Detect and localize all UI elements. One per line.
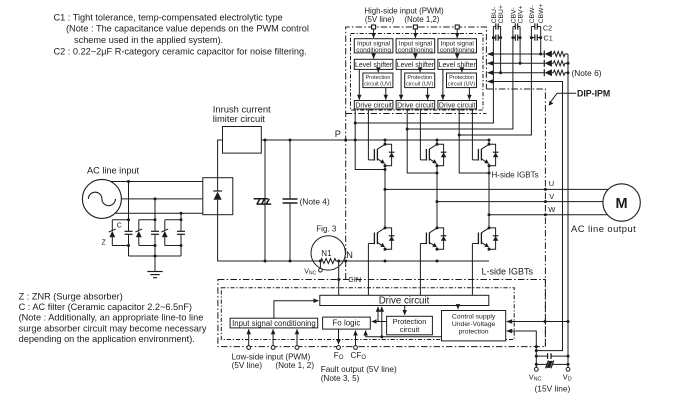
svg-text:DIP-IPM: DIP-IPM	[577, 89, 610, 99]
DIP-IPM boundary (dash-dot)	[346, 27, 546, 347]
wire low gate feed U	[367, 244, 369, 296]
svg-text:N1: N1	[321, 249, 332, 258]
svg-text:CBV+: CBV+	[518, 5, 525, 23]
wire level shifter to protection U	[377, 69, 379, 72]
wire AC line 1	[111, 181, 203, 183]
wire low-side input 3	[296, 329, 298, 345]
svg-text:U: U	[549, 179, 554, 188]
IGBT Q1 (high-side U)	[368, 140, 385, 166]
low-side inner dashed box	[221, 288, 514, 340]
motor M	[603, 184, 640, 221]
note text C1/C2	[54, 12, 309, 56]
wire drive to UV protection	[457, 306, 459, 310]
IGBT Q5 (low-side V)	[420, 223, 437, 249]
wire phase U	[384, 188, 609, 191]
label Inrush current limiter circuit	[213, 104, 271, 125]
svg-text:(Note 1, 2): (Note 1, 2)	[275, 361, 314, 370]
freewheel diode Q4 (low-side U)	[385, 228, 394, 249]
level shifter box U	[354, 59, 393, 69]
svg-text:P: P	[335, 129, 341, 139]
svg-text:Level shifter: Level shifter	[397, 62, 435, 69]
wire low gate feed W	[471, 244, 473, 296]
svg-text:circuit (UV): circuit (UV)	[448, 81, 475, 87]
svg-text:Level shifter: Level shifter	[355, 62, 393, 69]
AC source V1	[82, 179, 121, 218]
inrush current limiter box	[223, 127, 262, 154]
svg-text:C2: C2	[543, 24, 552, 33]
wire bootstrap minus link U	[355, 122, 493, 125]
svg-text:circuit: circuit	[400, 325, 421, 334]
wire drive to Fo-logic/protection link	[378, 307, 383, 339]
ground	[147, 256, 162, 278]
node N1 left	[319, 260, 322, 263]
node N pin on boundary	[344, 260, 347, 263]
capacitor C1 (CBW)	[530, 35, 542, 41]
wire drive to protection	[404, 306, 406, 315]
wire high drive V VS feed	[407, 109, 437, 173]
svg-text:(Note 4): (Note 4)	[300, 196, 330, 206]
protection circuit box (low-side)	[387, 316, 433, 335]
capacitor C1 (CBV)	[511, 35, 521, 41]
svg-text:conditioning: conditioning	[398, 47, 433, 54]
wire AC line 2	[121, 198, 202, 200]
terminal VNC (near N1)	[319, 261, 323, 272]
terminal low-side input 1	[247, 346, 251, 350]
label Low-side input (PWM)	[232, 352, 315, 370]
freewheel diode Q5 (low-side V)	[437, 228, 446, 249]
wire high gate feed U	[367, 109, 369, 160]
wire ISC-low to drive circuit	[274, 301, 319, 319]
capacitor C2 (CBV)	[513, 23, 520, 29]
svg-text:CBW+: CBW+	[538, 4, 545, 24]
surge absorber unit 1 (Z varistor + C cap)	[109, 218, 133, 256]
svg-text:Protection: Protection	[366, 75, 391, 81]
wire input arrow U	[373, 29, 375, 38]
svg-text:Fo logic: Fo logic	[332, 318, 360, 327]
svg-text:(Note : Additionally, an appro: (Note : Additionally, an appropriate lin…	[19, 313, 204, 323]
freewheel diode Q2 (high-side V)	[437, 144, 446, 165]
label Fault output	[321, 365, 397, 383]
svg-text:(5V line): (5V line)	[365, 15, 395, 24]
node line2-filter tap	[154, 197, 157, 200]
wire protection to drive W	[468, 88, 470, 100]
freewheel diode Q1 (high-side U)	[385, 144, 394, 165]
wire high drive U VS feed	[355, 109, 385, 170]
wire VNC to UV protection	[506, 329, 536, 368]
bootstrap capacitor pair 2 wires	[513, 27, 520, 130]
svg-text:C1: C1	[544, 34, 553, 43]
node V leg emitter	[436, 260, 439, 263]
level shifter box W	[438, 59, 477, 69]
svg-text:M: M	[616, 196, 628, 212]
wire VNC supply row 4	[487, 79, 563, 350]
svg-text:limiter circuit: limiter circuit	[213, 113, 265, 124]
svg-text:conditioning: conditioning	[440, 47, 475, 54]
label High-side input (PWM)	[364, 6, 444, 24]
capacitor smoothing (Note 4)	[283, 140, 298, 261]
IGBT Q3 (high-side W)	[472, 140, 489, 166]
node VS junction W	[458, 134, 461, 137]
svg-text:(Note : The capacitance value: (Note : The capacitance value depends on…	[66, 24, 309, 34]
wire level shifter to protection W	[461, 69, 463, 72]
input signal conditioning box (high V)	[396, 39, 435, 54]
svg-text:AC line output: AC line output	[571, 223, 636, 234]
wire P rail	[261, 139, 489, 141]
wire phase leg V midpoint	[436, 166, 438, 228]
drive circuit box (high U)	[354, 101, 393, 110]
node P rail leg W	[488, 139, 491, 142]
node VNC-row4	[535, 349, 538, 352]
note text Z/C	[19, 291, 207, 344]
wire protection to drive U	[385, 88, 387, 100]
svg-text:circuit (UV): circuit (UV)	[364, 81, 391, 87]
level shifter box V	[396, 59, 435, 69]
high-side inner dashed box	[351, 34, 484, 111]
wire protection to drive V	[427, 88, 429, 100]
svg-text:CBV-: CBV-	[510, 8, 517, 24]
IGBT Q6 (low-side W)	[472, 223, 489, 249]
Fo logic box	[323, 317, 371, 329]
wire level shifter to drive U	[358, 69, 360, 99]
wire input arrow W	[456, 29, 458, 38]
wire high gate feed V	[419, 109, 421, 160]
node VS junction U	[354, 122, 357, 125]
bootstrap supply row 1 (diode + resistor, Note 6)	[487, 51, 568, 58]
svg-text:C2 : 0.22~2µF R-category ceram: C2 : 0.22~2µF R-category ceramic capacit…	[54, 46, 307, 56]
wire ISC to level shifter U	[373, 53, 375, 59]
node CIN pin on boundary	[337, 278, 340, 281]
node U leg emitter	[384, 260, 387, 263]
terminal VNC	[534, 367, 538, 371]
input signal conditioning box (high U)	[354, 39, 393, 54]
svg-text:V: V	[549, 192, 554, 201]
node P-cap	[289, 139, 292, 142]
terminal high-side input U	[372, 25, 376, 29]
surge absorber unit 2 (Z varistor + C cap)	[135, 218, 159, 256]
wire bootstrap minus link V	[407, 128, 513, 131]
drive circuit box (high W)	[438, 101, 477, 110]
wire low-side input 1	[248, 329, 250, 345]
svg-text:VNC: VNC	[304, 269, 316, 277]
wire low-side input 2	[272, 329, 274, 345]
resistor ZZZ (snubber)	[254, 140, 272, 261]
wire phase V	[436, 200, 603, 203]
wire level shifter to protection V	[419, 69, 421, 72]
capacitor C2 (CBW)	[531, 23, 540, 29]
svg-text:W: W	[548, 205, 556, 214]
wire low gate feed V	[419, 244, 421, 296]
svg-text:(5V line): (5V line)	[232, 361, 263, 370]
svg-text:(Note 1,2): (Note 1,2)	[404, 15, 439, 24]
protection circuit (UV) box (high U)	[363, 73, 393, 88]
svg-text:Drive circuit: Drive circuit	[397, 102, 434, 109]
wire bootstrap minus link W	[459, 134, 531, 137]
input signal conditioning box (low-side)	[230, 318, 318, 328]
protection circuit (UV) box (high V)	[405, 73, 435, 88]
IGBT Q2 (high-side V)	[420, 140, 437, 166]
node bus-row2	[567, 62, 570, 65]
shunt resistor N1 (Fig. 3)	[311, 236, 345, 270]
wire N rail right	[339, 260, 489, 262]
node P rail leg V	[436, 139, 439, 142]
wire level shifter to drive W	[442, 69, 444, 99]
svg-text:Level shifter: Level shifter	[439, 62, 477, 69]
low-side outer dash-dot box	[218, 280, 546, 347]
wire high drive W VS feed	[459, 109, 489, 173]
terminal high-side input V	[413, 25, 417, 29]
bridge rectifier D1	[203, 178, 233, 215]
svg-text:Drive circuit: Drive circuit	[355, 102, 392, 109]
terminal CFO	[354, 346, 358, 350]
svg-text:CBW-: CBW-	[529, 5, 536, 23]
wire filter tap 3	[180, 213, 182, 220]
wire protection to Fo logic	[372, 321, 387, 323]
node line1-filter tap	[127, 180, 130, 183]
terminal low-side input 3	[295, 346, 299, 350]
svg-text:surge absorber circuit may bec: surge absorber circuit may become necess…	[19, 323, 207, 333]
svg-text:AC line input: AC line input	[87, 166, 140, 176]
svg-text:Control supply: Control supply	[452, 314, 496, 321]
node bus-row3	[567, 71, 570, 74]
capacitor C1 (CBU)	[492, 35, 502, 41]
wire CFO	[355, 331, 357, 346]
wire Fo output	[338, 329, 340, 344]
wire internal ground to Fo logic	[366, 331, 442, 337]
wire phase W	[488, 213, 608, 216]
svg-text:Fig. 3: Fig. 3	[316, 225, 337, 234]
svg-text:C1 : Tight tolerance, temp-com: C1 : Tight tolerance, temp-compensated e…	[54, 12, 283, 22]
svg-text:C : AC filter (Ceramic capacit: C : AC filter (Ceramic capacitor 2.2~6.5…	[19, 302, 192, 312]
wire high gate feed W	[471, 109, 473, 160]
bootstrap supply row 2 (diode + resistor, Note 6)	[487, 60, 568, 67]
wire CIN	[338, 261, 340, 295]
svg-text:Input signal conditioning: Input signal conditioning	[232, 319, 316, 328]
svg-text:Drive circuit: Drive circuit	[439, 102, 476, 109]
surge absorber unit 3 (Z varistor + C cap)	[161, 218, 185, 256]
node P pin on boundary	[344, 139, 347, 142]
svg-text:protection: protection	[459, 328, 489, 335]
wire phase leg U midpoint	[384, 166, 386, 228]
svg-text:(Note 6): (Note 6)	[572, 68, 602, 78]
wire ISC to level shifter W	[456, 53, 458, 59]
svg-text:(Note 3, 5): (Note 3, 5)	[321, 374, 360, 383]
wire filter tap 2	[154, 199, 156, 220]
IGBT Q4 (low-side U)	[368, 223, 385, 249]
terminal VD	[566, 367, 570, 371]
terminal high-side input W	[455, 25, 459, 29]
protection circuit (UV) box (high W)	[447, 73, 477, 88]
svg-text:L-side IGBTs: L-side IGBTs	[482, 267, 534, 277]
bootstrap supply row 3 (diode + resistor, Note 6)	[487, 69, 568, 76]
label DIP-IPM	[549, 89, 611, 106]
svg-text:CBU-: CBU-	[491, 7, 498, 24]
svg-text:scheme used in the applied sys: scheme used in the applied system).	[74, 35, 223, 45]
terminal Fo	[337, 346, 341, 350]
node line3-filter tap	[180, 212, 183, 215]
control supply under-voltage protection box	[442, 311, 506, 341]
freewheel diode Q3 (high-side W)	[489, 144, 498, 165]
wire filter ground rail	[129, 255, 182, 257]
svg-text:(15V line): (15V line)	[535, 384, 571, 394]
wire AC line 3	[116, 212, 203, 214]
freewheel diode Q6 (low-side W)	[489, 228, 498, 249]
bootstrap capacitor pair 3 wires	[531, 27, 540, 136]
capacitor C2 (CBU)	[493, 23, 500, 29]
terminal low-side input 2	[271, 346, 275, 350]
svg-text:Z: Z	[102, 239, 107, 246]
wire input arrow V	[414, 29, 416, 38]
node P rail leg U	[384, 139, 387, 142]
input signal conditioning box (high W)	[438, 39, 477, 54]
svg-text:CBU+: CBU+	[498, 5, 505, 23]
wire VD bus	[567, 54, 569, 367]
svg-text:Fault output (5V line): Fault output (5V line)	[321, 365, 397, 374]
capacitor VD-VNC	[535, 353, 570, 359]
node P-zzz	[264, 139, 267, 142]
svg-text:circuit (UV): circuit (UV)	[406, 81, 433, 87]
svg-text:Under-Voltage: Under-Voltage	[452, 321, 496, 328]
svg-text:conditioning: conditioning	[356, 47, 391, 54]
wire ISC to level shifter V	[414, 53, 416, 59]
svg-text:C: C	[117, 222, 122, 229]
wire phase leg W midpoint	[488, 166, 490, 228]
svg-text:N: N	[346, 250, 353, 260]
node N1 right	[337, 260, 340, 263]
wire level shifter to drive V	[400, 69, 402, 99]
drive circuit box (low-side)	[320, 295, 489, 306]
node VS junction V	[406, 128, 409, 131]
svg-text:Protection: Protection	[449, 75, 474, 81]
zener diode VD-VNC	[535, 361, 570, 369]
wire rectifier+ to limiter	[218, 140, 223, 178]
svg-text:depending on the application e: depending on the application environment…	[19, 334, 195, 344]
bootstrap capacitor pair 1 wires	[493, 27, 500, 124]
node N-cap	[289, 260, 292, 263]
svg-text:Z : ZNR (Surge absorber): Z : ZNR (Surge absorber)	[19, 291, 123, 301]
node N-zzz	[264, 260, 267, 263]
drive circuit box (high V)	[396, 101, 435, 110]
svg-text:Protection: Protection	[407, 75, 432, 81]
svg-text:Drive circuit: Drive circuit	[379, 296, 430, 307]
wire VD to UV protection	[506, 319, 570, 324]
wire rectifier- to N rail	[218, 215, 320, 261]
wire filter tap 1	[128, 182, 130, 220]
svg-text:H-side IGBTs: H-side IGBTs	[492, 171, 539, 180]
